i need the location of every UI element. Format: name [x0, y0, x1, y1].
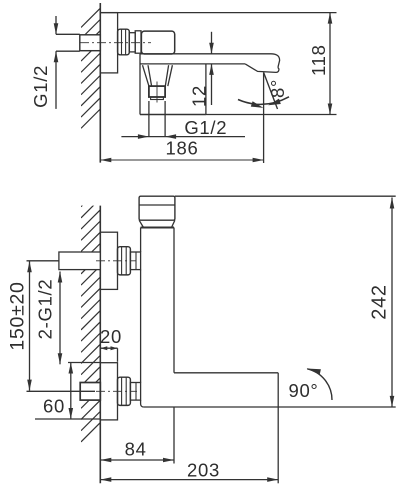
- svg-text:90°: 90°: [288, 380, 318, 401]
- svg-text:186: 186: [166, 138, 199, 159]
- svg-text:242: 242: [369, 284, 391, 319]
- svg-text:12: 12: [189, 85, 210, 107]
- svg-text:203: 203: [187, 460, 220, 481]
- svg-text:2-G1/2: 2-G1/2: [35, 279, 56, 340]
- svg-text:8°: 8°: [267, 79, 288, 98]
- svg-text:60: 60: [43, 396, 65, 417]
- svg-text:G1/2: G1/2: [184, 117, 227, 138]
- svg-text:20: 20: [100, 326, 122, 347]
- svg-text:118: 118: [308, 44, 329, 76]
- svg-text:G1/2: G1/2: [30, 65, 51, 108]
- svg-text:150±20: 150±20: [7, 281, 29, 350]
- svg-text:84: 84: [125, 438, 147, 459]
